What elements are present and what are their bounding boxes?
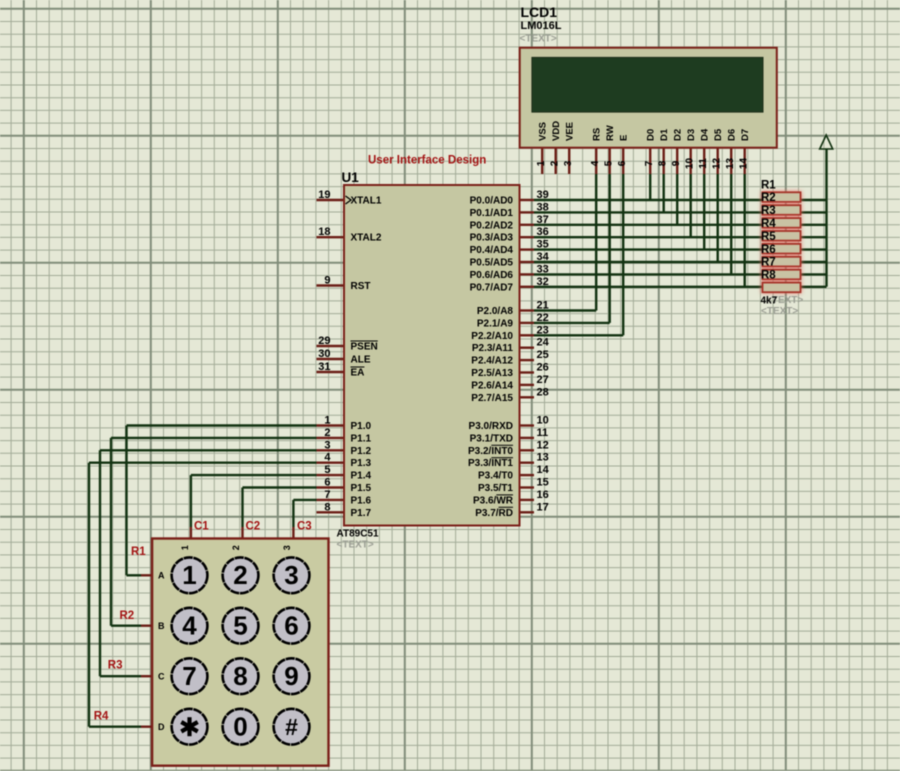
svg-text:EA: EA <box>351 368 365 379</box>
svg-text:0: 0 <box>233 711 247 741</box>
svg-text:P2.3/A11: P2.3/A11 <box>472 343 514 354</box>
svg-text:9: 9 <box>324 275 330 287</box>
svg-text:P1.6: P1.6 <box>351 495 372 506</box>
svg-text:P3.1/TXD: P3.1/TXD <box>470 433 513 444</box>
svg-text:19: 19 <box>318 189 330 201</box>
svg-text:P0.2/AD2: P0.2/AD2 <box>470 220 514 231</box>
svg-text:D6: D6 <box>727 129 738 141</box>
svg-text:P1.2: P1.2 <box>351 446 372 457</box>
svg-text:<TEXT>: <TEXT> <box>761 306 798 317</box>
svg-text:R1: R1 <box>761 179 776 191</box>
svg-text:1: 1 <box>536 160 547 166</box>
svg-text:14: 14 <box>537 464 550 476</box>
svg-text:P3.2/INT0: P3.2/INT0 <box>468 446 513 457</box>
svg-text:R4: R4 <box>761 218 776 230</box>
svg-text:8: 8 <box>233 661 247 691</box>
svg-text:P1.0: P1.0 <box>351 421 372 432</box>
svg-text:13: 13 <box>725 158 736 170</box>
svg-text:ALE: ALE <box>351 355 371 366</box>
svg-text:XTAL2: XTAL2 <box>351 233 382 244</box>
svg-text:E: E <box>619 135 630 141</box>
svg-text:8: 8 <box>658 160 669 166</box>
svg-text:5: 5 <box>233 610 247 640</box>
svg-text:P1.5: P1.5 <box>351 483 372 494</box>
svg-text:D5: D5 <box>713 128 724 141</box>
svg-text:R3: R3 <box>761 205 776 217</box>
svg-text:P0.5/AD5: P0.5/AD5 <box>470 258 514 269</box>
svg-text:4: 4 <box>324 452 331 464</box>
svg-text:D0: D0 <box>646 129 657 141</box>
svg-text:#: # <box>285 714 298 740</box>
svg-text:21: 21 <box>537 300 549 312</box>
svg-text:R2: R2 <box>761 192 776 204</box>
svg-text:7: 7 <box>644 160 655 166</box>
svg-text:VEE: VEE <box>565 122 576 141</box>
svg-text:P1.7: P1.7 <box>351 508 372 519</box>
svg-text:6: 6 <box>324 477 330 489</box>
svg-text:C2: C2 <box>246 521 261 533</box>
svg-text:<TEXT>: <TEXT> <box>337 540 374 551</box>
svg-text:33: 33 <box>537 263 549 275</box>
svg-text:11: 11 <box>537 427 549 439</box>
svg-text:P2.7/A15: P2.7/A15 <box>471 393 513 404</box>
svg-text:1: 1 <box>182 560 196 590</box>
svg-text:22: 22 <box>537 312 549 324</box>
svg-text:5: 5 <box>324 464 330 476</box>
svg-text:P1.1: P1.1 <box>351 433 372 444</box>
svg-text:3: 3 <box>282 545 292 550</box>
svg-text:12: 12 <box>712 158 723 170</box>
svg-text:3: 3 <box>324 439 330 451</box>
svg-text:C3: C3 <box>297 521 312 533</box>
svg-text:P2.6/A14: P2.6/A14 <box>471 380 513 391</box>
svg-text:1: 1 <box>180 545 190 550</box>
svg-text:38: 38 <box>537 201 549 213</box>
svg-text:P0.3/AD3: P0.3/AD3 <box>470 233 514 244</box>
svg-text:27: 27 <box>537 374 549 386</box>
svg-text:9: 9 <box>671 160 682 166</box>
svg-text:14: 14 <box>739 158 750 170</box>
svg-text:10: 10 <box>537 415 549 427</box>
svg-text:D2: D2 <box>673 129 684 141</box>
svg-text:LM016L: LM016L <box>521 20 562 32</box>
svg-text:LCD1: LCD1 <box>521 4 558 20</box>
svg-text:4k7: 4k7 <box>761 296 778 307</box>
svg-text:23: 23 <box>537 324 549 336</box>
svg-text:B: B <box>158 621 165 631</box>
svg-text:6: 6 <box>284 610 298 640</box>
svg-text:2: 2 <box>550 160 561 166</box>
svg-text:R7: R7 <box>761 257 776 269</box>
svg-text:P2.1/A9: P2.1/A9 <box>477 318 514 329</box>
svg-text:34: 34 <box>537 251 550 263</box>
svg-text:P2.0/A8: P2.0/A8 <box>477 306 514 317</box>
svg-text:P3.3/INT1: P3.3/INT1 <box>468 458 513 469</box>
svg-text:P2.4/A12: P2.4/A12 <box>471 356 513 367</box>
svg-text:RS: RS <box>592 128 603 141</box>
svg-text:P0.0/AD0: P0.0/AD0 <box>470 196 514 207</box>
svg-text:26: 26 <box>537 362 549 374</box>
svg-text:13: 13 <box>537 452 549 464</box>
svg-text:R2: R2 <box>120 610 135 622</box>
svg-text:25: 25 <box>537 349 549 361</box>
svg-text:C: C <box>158 671 165 681</box>
svg-text:6: 6 <box>617 160 628 166</box>
svg-text:<TEXT>: <TEXT> <box>520 34 557 45</box>
svg-text:4: 4 <box>590 160 601 166</box>
svg-text:35: 35 <box>537 239 549 251</box>
svg-text:R5: R5 <box>761 231 776 243</box>
svg-text:P3.6/WR: P3.6/WR <box>473 495 514 506</box>
svg-text:P2.2/A10: P2.2/A10 <box>471 331 513 342</box>
svg-text:C1: C1 <box>194 521 209 533</box>
svg-text:D7: D7 <box>740 129 751 141</box>
svg-text:A: A <box>158 571 165 581</box>
svg-text:24: 24 <box>537 337 550 349</box>
svg-text:3: 3 <box>284 560 298 590</box>
svg-text:P2.5/A13: P2.5/A13 <box>471 368 513 379</box>
svg-text:RST: RST <box>351 281 371 292</box>
svg-text:VSS: VSS <box>538 122 549 141</box>
svg-text:R8: R8 <box>761 270 776 282</box>
svg-text:15: 15 <box>537 477 549 489</box>
svg-text:XTAL1: XTAL1 <box>351 196 382 207</box>
svg-text:7: 7 <box>324 489 330 501</box>
svg-text:R3: R3 <box>108 660 123 672</box>
svg-text:P0.6/AD6: P0.6/AD6 <box>470 270 514 281</box>
svg-text:D1: D1 <box>659 128 670 141</box>
svg-text:39: 39 <box>537 189 549 201</box>
svg-text:2: 2 <box>233 560 247 590</box>
svg-text:P3.0/RXD: P3.0/RXD <box>469 421 513 432</box>
svg-text:9: 9 <box>284 661 298 691</box>
svg-text:U1: U1 <box>342 170 360 185</box>
svg-text:8: 8 <box>324 501 330 513</box>
svg-text:4: 4 <box>182 610 197 640</box>
svg-text:12: 12 <box>537 439 549 451</box>
svg-text:1: 1 <box>324 415 330 427</box>
svg-text:VDD: VDD <box>551 121 562 141</box>
svg-text:R6: R6 <box>761 244 776 256</box>
svg-text:17: 17 <box>537 501 549 513</box>
svg-text:P3.5/T1: P3.5/T1 <box>478 483 513 494</box>
svg-text:5: 5 <box>604 160 615 166</box>
svg-text:RW: RW <box>605 125 616 141</box>
svg-text:2: 2 <box>231 545 241 550</box>
svg-text:D3: D3 <box>686 129 697 141</box>
svg-text:30: 30 <box>318 348 330 360</box>
svg-text:32: 32 <box>537 276 549 288</box>
svg-text:11: 11 <box>698 158 709 169</box>
svg-text:18: 18 <box>318 226 330 238</box>
svg-text:PSEN: PSEN <box>351 342 378 353</box>
svg-text:P0.7/AD7: P0.7/AD7 <box>470 282 514 293</box>
svg-text:P3.4/T0: P3.4/T0 <box>478 471 513 482</box>
svg-text:2: 2 <box>324 427 330 439</box>
svg-text:16: 16 <box>537 489 549 501</box>
svg-text:P3.7/RD: P3.7/RD <box>475 508 513 519</box>
svg-text:P0.1/AD1: P0.1/AD1 <box>470 208 514 219</box>
svg-text:31: 31 <box>318 361 330 373</box>
svg-text:3: 3 <box>563 160 574 166</box>
svg-text:36: 36 <box>537 226 549 238</box>
svg-text:7: 7 <box>182 661 196 691</box>
svg-text:AT89C51: AT89C51 <box>337 529 379 540</box>
svg-text:28: 28 <box>537 386 549 398</box>
svg-text:P0.4/AD4: P0.4/AD4 <box>470 245 514 256</box>
svg-text:10: 10 <box>685 158 696 170</box>
svg-text:29: 29 <box>318 335 330 347</box>
svg-text:D: D <box>158 722 165 732</box>
svg-text:R4: R4 <box>94 711 109 723</box>
svg-text:R1: R1 <box>131 546 146 558</box>
svg-text:D4: D4 <box>700 128 711 141</box>
svg-text:P1.4: P1.4 <box>351 471 372 482</box>
svg-text:37: 37 <box>537 214 549 226</box>
svg-text:P1.3: P1.3 <box>351 458 372 469</box>
svg-text:User Interface Design: User Interface Design <box>368 155 486 167</box>
